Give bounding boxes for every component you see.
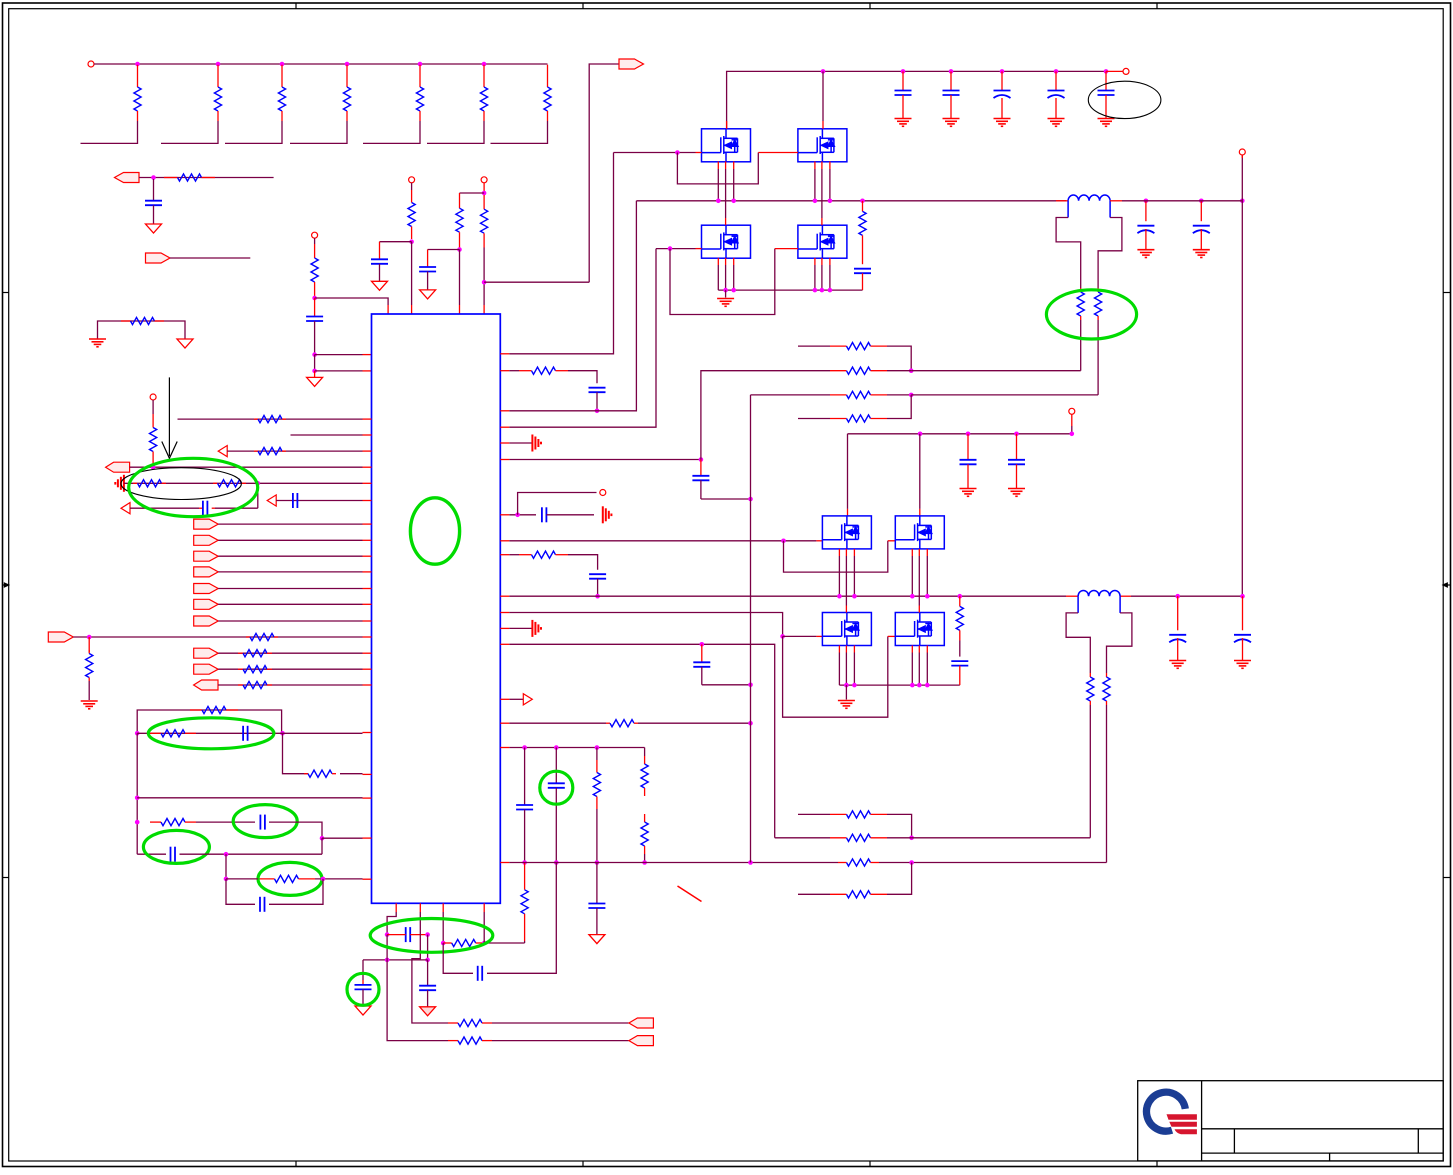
wire right pin row 411 to bus riser — [500, 201, 636, 411]
wire net3a branch — [428, 249, 460, 251]
wire left vert of block — [136, 733, 138, 854]
junction — [813, 288, 818, 293]
resistor ladder R1 — [134, 65, 141, 121]
wire bottom pin 443 — [442, 903, 444, 943]
junction — [1014, 432, 1019, 437]
annotation green ellipse rows 934/943 — [370, 919, 493, 953]
wire gate link U group1 upper — [677, 153, 798, 184]
wire vert 322 to row E — [321, 838, 323, 854]
wire row E right — [180, 853, 323, 855]
port triangle row 508 — [121, 503, 130, 514]
wire left pin row 483 — [124, 482, 372, 484]
resistor sense1 B — [1095, 288, 1102, 395]
capacitor net1 — [306, 298, 323, 355]
junction — [910, 594, 915, 599]
annotation ellipse row 822 cap — [233, 805, 297, 838]
junction — [554, 745, 559, 750]
wire — [218, 571, 371, 573]
terminal circle net1 — [312, 232, 318, 238]
ground earth — [994, 118, 1011, 120]
resistor fb2 row838 — [775, 834, 912, 841]
wire right pin row 612 to lower gates group2 — [500, 613, 782, 637]
resistor ladder R4 — [343, 65, 350, 121]
wire right pin row 515 — [500, 514, 536, 516]
wire gate A2 lower — [783, 635, 823, 637]
wire L1 sense steps — [1056, 201, 1122, 288]
junction — [909, 836, 914, 841]
wire — [218, 555, 371, 557]
node VIN terminal circle — [88, 61, 94, 67]
wire sources Q7 — [839, 646, 854, 686]
annotation ellipse row E cap — [143, 830, 209, 863]
capacitor out1 a — [1137, 201, 1154, 250]
ground earth — [1137, 249, 1154, 251]
capacitor bus decoupling — [1048, 71, 1065, 118]
wire row556 corner — [568, 555, 598, 570]
junction — [457, 247, 462, 252]
junction — [901, 69, 906, 74]
wire 387 between dots — [386, 935, 388, 960]
wire left pin row 371 — [315, 370, 372, 372]
port arrow left row1 — [115, 173, 140, 183]
resistor net1 — [311, 238, 318, 296]
ground arrow net2 — [372, 281, 388, 290]
junction — [1070, 432, 1075, 437]
junction — [781, 539, 786, 544]
junction — [280, 62, 285, 67]
transistor Q3 (low-side A phase1) — [702, 225, 751, 258]
port arrow row 621 — [194, 616, 219, 626]
port arrow row 588 — [194, 584, 219, 594]
terminal circle mid rail — [1069, 408, 1075, 414]
ground earth group1 — [717, 290, 734, 306]
annotation ellipse row 733 — [148, 718, 274, 749]
resistor ladder R3 — [278, 65, 285, 121]
resistor ladder R2 — [214, 65, 221, 121]
capacitor out2 b — [1234, 596, 1251, 660]
wire row934 — [387, 934, 428, 936]
wire ladder bracket — [225, 121, 282, 143]
wire left pin row 685 — [218, 684, 372, 686]
junction — [320, 836, 325, 841]
resistor sense2 B — [1103, 673, 1110, 863]
wire net3 branch left — [460, 192, 485, 194]
annotation red slash — [678, 886, 702, 902]
wire — [218, 539, 371, 541]
junction — [1175, 594, 1180, 599]
ground arrow 363 — [355, 1006, 371, 1015]
junction — [554, 860, 559, 865]
wire drain risers group2 — [848, 434, 920, 516]
resistor — [238, 652, 243, 654]
capacitor 597 to gnd arrow — [588, 863, 605, 935]
wire left pin row 500 — [276, 500, 371, 502]
wire — [314, 355, 316, 371]
wire ladder bracket — [491, 121, 548, 143]
capacitor row 500 — [293, 493, 298, 508]
junction — [595, 409, 600, 414]
wire 387 down to row 1040 — [387, 960, 448, 1041]
resistor sense1 A — [1077, 288, 1084, 371]
junction — [828, 199, 833, 204]
resistor row 685 — [238, 684, 243, 686]
wire left pin row 774 — [340, 773, 372, 776]
wire net2 branch — [380, 241, 412, 243]
analog ground row 515 — [602, 506, 604, 523]
resistor fb row346 — [798, 343, 911, 371]
capacitor mid rail — [960, 434, 977, 489]
annotation green circle 363 — [347, 973, 379, 1005]
wire row 822 — [196, 821, 255, 823]
ground arrow 427 — [420, 1007, 436, 1016]
wire right vert of block — [283, 733, 309, 773]
wire ladder bracket — [161, 121, 218, 143]
wire feedback riser 750 — [750, 395, 752, 863]
junction — [151, 465, 156, 470]
wire top power bus — [727, 71, 1106, 128]
ground earth far-left — [81, 700, 98, 702]
junction — [409, 239, 414, 244]
junction — [1240, 199, 1245, 204]
junction — [731, 199, 736, 204]
capacitor row 508 — [202, 501, 204, 516]
resistor row 1040 — [448, 1040, 458, 1042]
ground earth — [1098, 118, 1115, 120]
wire — [218, 652, 371, 654]
capacitor row371 — [589, 388, 606, 411]
resistor top rail — [190, 709, 202, 711]
junction — [675, 150, 680, 155]
wire row822 corner down — [269, 822, 322, 838]
capacitor bus decoupling — [943, 71, 960, 118]
junction — [482, 941, 487, 946]
capacitor chain 524 down — [516, 748, 533, 863]
junction — [748, 683, 753, 688]
junction — [135, 820, 140, 825]
port arrow far-left row 637 — [48, 632, 73, 642]
capacitor row 822 — [259, 815, 261, 830]
capacitor row1 to gnd — [145, 179, 162, 224]
junction — [441, 941, 446, 946]
wire gate row lower group1 — [656, 248, 702, 250]
port arrow row 467 — [106, 462, 130, 472]
terminal circle row 492 — [600, 490, 606, 496]
resistor row 419 — [254, 418, 258, 420]
junction — [345, 62, 350, 67]
port triangle row 500 — [267, 495, 276, 506]
IC U1 main controller — [372, 314, 501, 903]
wire row 508 via cap to junction — [130, 483, 258, 508]
wire to fb riser — [701, 498, 751, 500]
port arrow row 1023 — [629, 1018, 654, 1028]
wire row G right — [269, 879, 323, 904]
wire source bus group2 — [839, 684, 959, 686]
junction — [224, 852, 229, 857]
wire net3a to IC top — [459, 250, 461, 315]
ground arrow net1 — [307, 371, 323, 387]
resistor snubber phase1 — [859, 201, 866, 264]
junction — [135, 731, 140, 736]
logo red stripes — [1167, 1114, 1197, 1134]
capacitor 556 down (green circled) — [548, 748, 565, 863]
transistor Q1 (high-side A phase1) — [702, 129, 751, 162]
wire — [218, 603, 371, 605]
wire bottom pin 484 — [483, 903, 485, 943]
wire drain Q2 — [822, 71, 824, 128]
junction — [731, 288, 736, 293]
wire sources Q8 — [912, 646, 927, 686]
wire phase1 switch bus — [636, 200, 1066, 202]
wire right pin row 459 — [500, 459, 701, 461]
wire — [218, 588, 371, 590]
analog ground row 443 — [531, 435, 533, 452]
wire net3b down — [483, 248, 485, 315]
junction — [522, 860, 527, 865]
analog ground row 483 — [123, 475, 125, 492]
junction — [216, 62, 221, 67]
wire ladder bracket — [81, 121, 138, 143]
junction — [748, 721, 753, 726]
wire row515 up to circle — [518, 493, 597, 515]
capacitor row556 — [589, 574, 606, 596]
transistor Q7 (low-side A phase2) — [822, 613, 871, 646]
resistor net3b — [483, 195, 485, 209]
wire left pin row 419 — [178, 418, 372, 420]
resistor row F — [258, 878, 275, 880]
terminal circle net3 — [481, 177, 487, 183]
wire left pin row 435 — [291, 434, 372, 436]
junction — [918, 432, 923, 437]
ground earth left — [89, 338, 106, 340]
resistor row 556 — [519, 554, 532, 556]
junction — [312, 352, 317, 357]
wire fb row371 to sense — [911, 370, 1080, 372]
wire — [218, 523, 371, 525]
junction — [700, 642, 705, 647]
junction — [385, 932, 390, 937]
capacitor bus decoupling — [994, 71, 1011, 118]
wire phase2 bus row 596 — [500, 595, 1242, 597]
junction — [748, 860, 753, 865]
resistor row 451 — [254, 450, 258, 452]
junction — [1000, 69, 1005, 74]
wire gnd-res row — [98, 321, 186, 339]
border center arrows — [3, 583, 1450, 587]
junction — [312, 369, 317, 374]
transistor Q2 (high-side B phase1) — [798, 129, 847, 162]
terminal circle net2 — [409, 177, 415, 183]
ground arrow 597 — [589, 935, 605, 944]
port arrow row 685 (left-tip) — [194, 680, 218, 690]
resistor gnd row — [121, 320, 131, 322]
resistor row467 vertical — [150, 400, 157, 465]
wire drain Q3 — [725, 201, 727, 225]
junction — [151, 175, 156, 180]
wire right pin row 427 to gate riser — [500, 249, 656, 428]
resistor snubber phase2 — [956, 596, 963, 656]
transistor Q4 (low-side B phase1) — [798, 225, 847, 258]
junction — [482, 191, 487, 196]
wire drain Q7 — [845, 596, 847, 612]
port arrow row 524 — [194, 519, 219, 529]
wire right pin row 541 gate A2 — [500, 540, 822, 542]
terminal circle top bus — [1123, 68, 1129, 74]
annotation green ellipse inside IC — [410, 498, 459, 564]
port arrow row 669 — [194, 664, 219, 674]
resistor row1 — [164, 177, 178, 179]
wire row E — [137, 853, 166, 855]
port triangle right row 699 — [500, 698, 523, 700]
ground earth — [960, 488, 977, 490]
wire — [218, 668, 371, 670]
resistor fb2 row814 — [798, 811, 912, 838]
wire left pin row 637 — [73, 636, 371, 638]
capacitor chain below row644 — [693, 644, 750, 685]
junction — [925, 594, 930, 599]
port triangle row 451 — [218, 446, 227, 457]
junction — [910, 683, 915, 688]
junction — [595, 860, 600, 865]
junction — [1199, 199, 1204, 204]
wire left pin row 467 — [130, 466, 372, 468]
resistor net3a — [459, 193, 461, 208]
wire drain Q8 — [918, 596, 920, 612]
junction — [668, 246, 673, 251]
wire vout1 riser to circle — [1241, 155, 1243, 201]
capacitor row G — [259, 897, 261, 912]
junction — [482, 62, 487, 67]
wire row371 corner — [568, 371, 597, 384]
wire ladder bracket — [290, 121, 347, 143]
terminal circle vout1 — [1239, 149, 1245, 155]
resistor row483 a — [133, 482, 138, 484]
junction — [87, 635, 92, 640]
capacitor snubber phase1 — [854, 269, 871, 290]
junction — [699, 457, 704, 462]
junction — [909, 393, 914, 398]
wire — [218, 620, 371, 622]
wire 556 down to row973 — [487, 863, 556, 974]
terminal circle row467 pullup — [150, 394, 156, 400]
capacitor out2 a — [1169, 596, 1186, 660]
wire gate link U lower group2 — [783, 636, 896, 717]
wire row F — [226, 878, 372, 880]
junction — [642, 860, 647, 865]
junction — [716, 199, 721, 204]
annotation green circle cap556 — [540, 771, 573, 804]
junction — [280, 731, 285, 736]
wire to top port — [589, 64, 619, 282]
annotation black arrow — [162, 377, 177, 458]
junction — [224, 877, 229, 882]
capacitor row 733 — [242, 726, 244, 741]
junction — [820, 288, 825, 293]
wire row 1040 to port — [492, 1040, 629, 1042]
wire vout1 long riser down — [1241, 201, 1243, 596]
wire fb row395 to sense — [911, 394, 1098, 396]
annotation green ellipse sense1 — [1046, 290, 1136, 339]
capacitor mid rail — [1008, 434, 1025, 489]
ground earth — [1193, 249, 1210, 251]
wire L2 sense steps — [1066, 596, 1132, 673]
logo blue ring — [1146, 1092, 1185, 1131]
capacitor bus decoupling — [1098, 71, 1115, 118]
wire fb2 row838 to sense — [912, 837, 1091, 839]
wire left pin row 733 — [137, 732, 371, 735]
wire 427 down — [427, 935, 429, 960]
junction — [780, 634, 785, 639]
resistor fb2 row894 — [798, 863, 912, 898]
wire row 1023 to port — [492, 1022, 629, 1024]
ground arrow net3a — [420, 290, 436, 299]
resistor row 862 (block row3) — [838, 862, 847, 864]
capacitor row 934 — [405, 927, 407, 942]
wire long row 862 from IC — [500, 862, 838, 864]
junction — [1144, 199, 1149, 204]
resistor ladder R6 — [480, 65, 487, 121]
junction — [425, 932, 430, 937]
junction — [837, 594, 842, 599]
junction — [595, 745, 600, 750]
wire row G cap loop — [226, 879, 255, 904]
capacitor row E — [170, 847, 172, 862]
wire net1 to IC top pin — [315, 298, 389, 305]
wire row 959 — [363, 959, 428, 961]
transistor Q5 (high-side A phase2) — [822, 516, 871, 549]
capacitor bus decoupling — [895, 71, 912, 118]
wire phase1 bus right of L1 — [1110, 200, 1242, 202]
junction — [821, 69, 826, 74]
junction — [844, 683, 849, 688]
junction — [425, 958, 430, 963]
wire net3b to top port — [484, 281, 589, 283]
junction — [385, 958, 390, 963]
junction — [321, 877, 326, 882]
junction — [312, 296, 317, 301]
wire ladder bracket — [363, 121, 420, 143]
wire sources Q1 — [718, 162, 733, 201]
capacitor 363 to gnd (green circled) — [355, 960, 372, 1006]
resistor fb row419 — [798, 395, 911, 422]
wire drain Q1 stub — [726, 121, 728, 129]
junction — [522, 745, 527, 750]
wire source bus group1 — [718, 289, 862, 291]
annotation black ellipse top right — [1088, 81, 1161, 118]
junction — [482, 280, 487, 285]
junction — [909, 860, 914, 865]
wire row862 right — [879, 862, 1107, 864]
title block frame — [1138, 1081, 1444, 1161]
resistor row 637 — [246, 636, 250, 638]
capacitor net2 to gnd — [371, 242, 388, 282]
wire row 973 cap loop — [443, 943, 473, 973]
inductor L1 phase1 — [1068, 195, 1110, 201]
wire mid cap rail — [848, 433, 1072, 435]
port arrow top — [619, 59, 644, 69]
annotation ellipse row F — [258, 862, 322, 895]
ground earth — [943, 118, 960, 120]
resistor row 943 — [443, 942, 452, 944]
wire RC block top rail — [137, 710, 281, 733]
wire left pin row 354 — [315, 354, 372, 356]
wire gate link U group1 lower — [670, 249, 798, 315]
capacitor snubber phase2 — [951, 661, 968, 685]
resistor 597 down — [593, 748, 600, 863]
wire row1 — [139, 177, 274, 179]
junction — [958, 594, 963, 599]
wire row 723 to riser — [638, 722, 751, 724]
junction — [813, 199, 818, 204]
